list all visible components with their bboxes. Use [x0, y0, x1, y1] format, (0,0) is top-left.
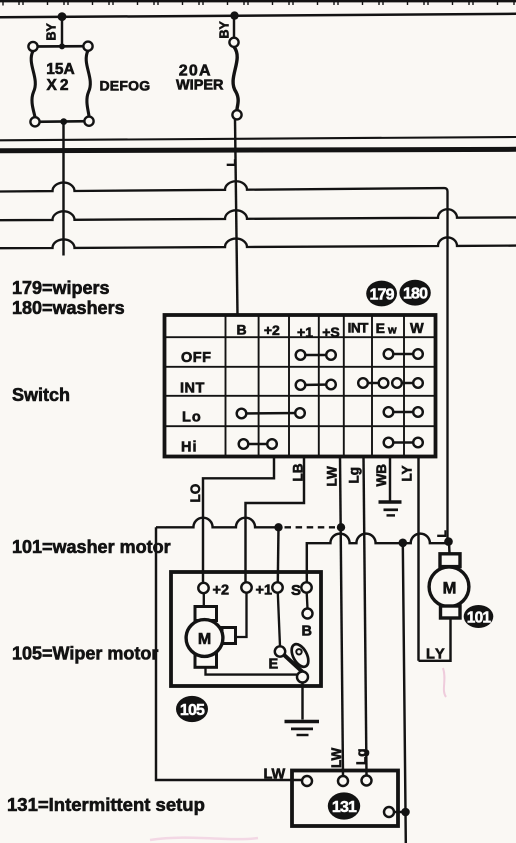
wiper motor unit 105 box — [171, 572, 321, 686]
motor M2 washer: bottom tab — [441, 606, 461, 618]
svg-text:Hi: Hi — [181, 440, 198, 456]
svg-text:+2: +2 — [213, 583, 230, 599]
wire Lg from switch INT down to intermittent unit — [364, 457, 367, 776]
svg-text:L: L — [225, 159, 239, 166]
wire: +2 to motor top — [203, 593, 205, 606]
svg-text:+1: +1 — [297, 324, 313, 340]
svg-text:Switch: Switch — [12, 385, 70, 405]
wire: terminal 4 to S-net drop — [394, 811, 406, 813]
contact Lo Ew/W — [384, 407, 423, 417]
wire LY from switch W down to washer motor return — [417, 457, 419, 661]
contact INT quad INT-E-w-W — [358, 378, 423, 388]
node: junction S bus to washer motor — [444, 537, 453, 546]
motor M1 wiper: body — [186, 620, 223, 657]
svg-text:LB: LB — [291, 463, 306, 481]
terminal +2 (wiper motor) — [198, 583, 208, 593]
svg-text:LW: LW — [264, 767, 286, 783]
node: junction on supply at wiper feed — [230, 11, 238, 19]
svg-text:131: 131 — [332, 799, 357, 816]
svg-text:179: 179 — [369, 286, 394, 303]
motor M1 wiper: top brush tab — [195, 607, 217, 621]
badge 101 — [464, 605, 494, 628]
fuse 20A WIPER — [176, 38, 242, 120]
badge 131 — [328, 792, 360, 819]
svg-text:Lg: Lg — [347, 467, 362, 484]
wire: top supply line — [0, 14, 516, 17]
node: junction on LW wire — [337, 523, 345, 531]
svg-text:101=washer motor: 101=washer motor — [12, 537, 171, 557]
wire: washer feed to motor — [448, 542, 451, 554]
contact Lo B/+1 — [237, 408, 305, 418]
wire LW from switch +S down to intermittent unit — [340, 457, 343, 777]
contact INT +1/+S — [296, 380, 336, 390]
contact common (park switch) — [297, 672, 308, 683]
wire: supply to wiper fuse — [233, 16, 235, 42]
wire: drop from S bus junction down past unit — [403, 543, 406, 843]
svg-text:180=washers: 180=washers — [12, 298, 125, 318]
ground (switch WB) — [379, 502, 402, 515]
wire: harness line 2 — [0, 209, 516, 220]
svg-text:179=wipers: 179=wipers — [12, 278, 110, 298]
wire: dashed link to LW — [285, 526, 336, 528]
svg-text:LO: LO — [188, 484, 203, 503]
svg-text:BY: BY — [218, 20, 232, 38]
svg-text:E: E — [269, 657, 279, 673]
node: junction S bus to intermittent drop — [399, 539, 408, 548]
contact E (park switch) — [275, 646, 285, 656]
badge 180 — [399, 280, 430, 306]
wire: S terminal to B contact — [306, 593, 309, 609]
wire: S bus from wiper motor S over Lg and LY to washer motor — [307, 534, 449, 582]
svg-text:131=Intermittent setup: 131=Intermittent setup — [7, 794, 205, 815]
badge 179 — [366, 281, 397, 307]
terminal +1 (wiper motor) — [241, 582, 251, 592]
svg-text:DEFOG: DEFOG — [100, 78, 151, 94]
wire: wiper fuse down to switch B — [235, 119, 238, 315]
motor M2 washer: body — [429, 567, 469, 607]
ground (wiper motor) — [285, 722, 320, 736]
wire: thick bus — [0, 149, 516, 151]
svg-text:+2: +2 — [264, 322, 280, 338]
svg-text:S: S — [291, 582, 301, 599]
contact B (park switch) — [303, 609, 313, 619]
terminal 4 out (intermittent unit) — [384, 807, 394, 817]
wire: thin bus — [0, 137, 516, 140]
svg-text:B: B — [236, 322, 246, 338]
svg-text:WIPER: WIPER — [176, 77, 224, 93]
wire WB from switch to ground — [389, 457, 391, 501]
svg-text:LY: LY — [426, 647, 446, 663]
wire: harness line 3 — [0, 237, 516, 248]
wire: LW left drop to intermittent unit terminal 1 — [156, 527, 302, 780]
svg-text:L: L — [435, 530, 449, 537]
svg-text:Lg: Lg — [354, 749, 369, 766]
scan artifact pink — [443, 668, 446, 697]
svg-text:+1: +1 — [256, 583, 273, 599]
contact Hi Ew/W — [384, 438, 423, 448]
svg-text:BY: BY — [45, 22, 59, 40]
wire LO from switch +2 to wiper motor +2 — [203, 457, 274, 583]
node: junction on supply at defog feed — [58, 12, 67, 21]
badge 105 — [176, 696, 208, 722]
svg-text:LW: LW — [325, 466, 340, 487]
svg-text:+S: +S — [322, 324, 340, 340]
wire: branch down to wiper motor E terminal — [277, 527, 280, 582]
node: junction LW branch to E — [274, 523, 282, 531]
svg-text:INT: INT — [348, 321, 370, 336]
svg-text:E: E — [376, 320, 385, 336]
terminal 2 LW (intermittent unit) — [338, 776, 348, 786]
terminal 3 Lg (intermittent unit) — [362, 776, 372, 786]
wire: harness line 1 (to washer feed) — [0, 181, 448, 541]
svg-text:X2: X2 — [47, 77, 72, 94]
contact OFF +1/+S — [296, 350, 336, 360]
svg-text:M: M — [443, 580, 457, 598]
svg-text:LY: LY — [400, 465, 415, 481]
switch arm (park switch) — [283, 654, 308, 677]
wire: E terminal down to E contact — [278, 593, 280, 647]
svg-text:M: M — [198, 631, 211, 648]
fuse 15A X2 DEFOG — [28, 42, 93, 127]
intermittent unit 131 box — [292, 771, 398, 827]
svg-text:105: 105 — [180, 702, 205, 719]
motor M2 washer: top tab — [440, 554, 460, 567]
motor M1 wiper: bottom brush tab — [195, 653, 217, 667]
svg-text:w: w — [387, 324, 397, 336]
svg-text:LW: LW — [329, 747, 344, 768]
svg-text:B: B — [302, 624, 312, 640]
switch SW1 wiper/washer combination switch (contact table) — [165, 315, 436, 457]
wire: supply to defog fuse — [61, 17, 63, 47]
terminal E-feed (wiper motor) — [272, 582, 282, 592]
connector strip pin ticks — [3, 0, 514, 6]
svg-text:15A: 15A — [46, 61, 74, 78]
switch table row lines — [165, 337, 436, 426]
svg-text:W: W — [410, 321, 424, 337]
switch table column lines — [226, 315, 405, 457]
svg-text:OFF: OFF — [181, 350, 212, 366]
contact Hi B/+2 — [239, 439, 277, 449]
connector strip top edge — [0, 0, 516, 2]
wire: defog fuse down through buses — [62, 122, 64, 256]
wire: +1 to motor right tab — [237, 593, 247, 637]
contact OFF Ew/W — [384, 349, 423, 359]
wire: park common to ground — [301, 683, 303, 720]
svg-text:101: 101 — [467, 609, 492, 626]
wire: motor bottom to park contact — [206, 667, 298, 674]
terminal S (wiper motor) — [301, 582, 311, 592]
svg-text:105=Wiper motor: 105=Wiper motor — [12, 644, 158, 664]
node: junction at unit output — [401, 808, 410, 817]
terminal 1 LW (intermittent unit) — [302, 776, 312, 786]
wire LB from switch +1 to wiper motor +1 — [246, 457, 305, 583]
svg-text:WB: WB — [374, 464, 389, 487]
svg-text:INT: INT — [180, 381, 205, 397]
cam (park switch) — [288, 641, 312, 669]
svg-text:Lo: Lo — [182, 410, 202, 426]
wire: washer motor return loop LY — [419, 618, 451, 661]
wire: LW branch bus to wiper motor E and intermittent unit — [156, 518, 279, 528]
motor M1 wiper: right brush tab — [222, 628, 236, 644]
svg-text:180: 180 — [403, 286, 428, 303]
